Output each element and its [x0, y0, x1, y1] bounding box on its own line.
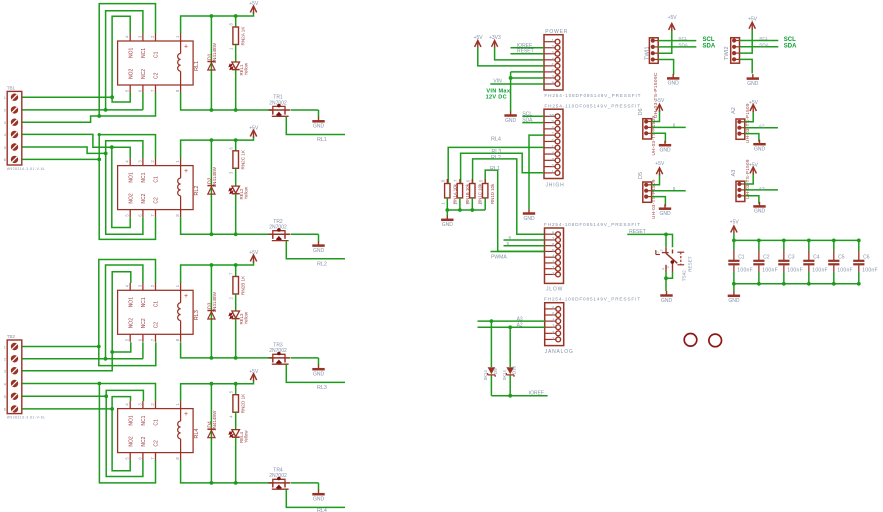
- wire SDA: [658, 46, 696, 48]
- svg-text:+5V: +5V: [249, 1, 259, 7]
- svg-text:NC1: NC1: [141, 415, 147, 425]
- svg-text:Yellow: Yellow: [243, 430, 248, 443]
- svg-text:+5V: +5V: [474, 35, 484, 41]
- wire: [510, 72, 512, 111]
- node: [97, 345, 101, 349]
- node: [664, 233, 668, 237]
- svg-text:TS42: TS42: [681, 270, 686, 281]
- svg-text:GND: GND: [659, 148, 671, 154]
- wire: [99, 384, 155, 483]
- svg-text:RL1: RL1: [490, 166, 500, 172]
- svg-text:1N4148W: 1N4148W: [212, 291, 217, 312]
- node: [210, 481, 214, 485]
- svg-text:NC2: NC2: [141, 69, 147, 79]
- svg-text:FH254-106DF085149V_PRESSFIT: FH254-106DF085149V_PRESSFIT: [544, 296, 641, 301]
- node: [508, 394, 512, 398]
- wire GND: [745, 196, 759, 204]
- wire: [235, 45, 237, 63]
- node: [458, 208, 462, 212]
- node NO1 junction: [110, 95, 114, 99]
- svg-text:GND: GND: [442, 222, 454, 228]
- svg-text:+5V: +5V: [749, 100, 759, 106]
- wire GND: [652, 133, 666, 143]
- supply +5V: [656, 168, 662, 174]
- svg-text:1N4148W: 1N4148W: [212, 42, 217, 63]
- svg-text:100nF: 100nF: [762, 267, 778, 273]
- node: [104, 394, 108, 398]
- svg-text:Yellow: Yellow: [243, 311, 248, 324]
- svg-text:A3: A3: [731, 170, 737, 177]
- wire: [318, 358, 320, 365]
- connector JLOW: [545, 228, 564, 283]
- wire RL2 net: [286, 241, 345, 259]
- node: [509, 76, 513, 80]
- wire: [181, 217, 273, 234]
- svg-text:NC2: NC2: [141, 436, 147, 446]
- svg-text:C2: C2: [154, 197, 160, 204]
- wire SCL: [740, 40, 779, 42]
- resistor RN1A: [446, 179, 448, 184]
- wire: [22, 109, 143, 111]
- diode D3: [210, 265, 212, 358]
- wire: [22, 158, 99, 160]
- svg-text:RL2: RL2: [317, 261, 327, 267]
- svg-text:+: +: [184, 293, 188, 300]
- relay RL3: [118, 290, 194, 334]
- svg-text:IOREF: IOREF: [529, 391, 544, 397]
- relay RL2 pins: [129, 158, 131, 166]
- svg-text:C1: C1: [154, 419, 160, 426]
- svg-text:W928316-3.81-V-6L: W928316-3.81-V-6L: [7, 416, 46, 420]
- LED REL1: [232, 62, 240, 69]
- svg-text:RN1C 10k: RN1C 10k: [477, 183, 482, 204]
- diode D10: [509, 327, 511, 367]
- svg-text:+: +: [184, 411, 188, 418]
- svg-text:C1: C1: [154, 51, 160, 58]
- capacitor C6: [858, 240, 860, 250]
- relay RL2: [118, 166, 194, 210]
- svg-text:+5V: +5V: [249, 125, 259, 131]
- wire: [495, 48, 544, 60]
- svg-text:2: 2: [660, 249, 664, 251]
- wire: [142, 342, 144, 359]
- svg-text:NO2: NO2: [128, 436, 134, 447]
- wire: [106, 141, 143, 158]
- resistor RN1B: [459, 179, 461, 184]
- diode D4: [210, 384, 212, 483]
- wire: [235, 294, 237, 311]
- svg-text:+5V: +5V: [748, 16, 758, 22]
- svg-text:POWER: POWER: [545, 29, 568, 35]
- svg-text:FH254-108DF085149V_PRESSFIT: FH254-108DF085149V_PRESSFIT: [544, 93, 641, 98]
- svg-text:C5: C5: [838, 254, 845, 260]
- wire: [235, 438, 237, 483]
- wire: [181, 460, 273, 483]
- svg-text:C1: C1: [154, 301, 160, 308]
- node: [104, 152, 108, 156]
- wire: [22, 134, 130, 158]
- wire: [181, 12, 254, 34]
- wire: [235, 319, 237, 358]
- wire: [22, 352, 112, 371]
- wire RL1 net: [286, 117, 345, 135]
- wire +5V rail: [734, 239, 859, 241]
- svg-text:A2: A2: [731, 107, 737, 114]
- wire: [291, 482, 319, 484]
- wire: [106, 390, 143, 401]
- wire +5V: [652, 110, 660, 121]
- wire: [235, 412, 237, 429]
- svg-text:SCL: SCL: [703, 37, 715, 43]
- mounting hole: [684, 334, 697, 347]
- node: [732, 282, 736, 286]
- svg-text:GND: GND: [661, 298, 673, 304]
- wire: [235, 194, 237, 234]
- relay RL4 pins: [129, 401, 131, 409]
- svg-text:RL2: RL2: [194, 186, 200, 196]
- node: [508, 325, 512, 329]
- wire GND: [529, 135, 544, 209]
- wire: [22, 395, 106, 397]
- supply +5V: [250, 6, 256, 12]
- wire: [291, 109, 319, 111]
- svg-text:TB2: TB2: [7, 334, 16, 339]
- wire: [112, 409, 130, 471]
- connector JANALOG: [545, 303, 564, 346]
- svg-text:+5V: +5V: [655, 98, 665, 104]
- svg-text:6: 6: [509, 235, 512, 240]
- svg-text:A3: A3: [517, 317, 523, 323]
- svg-text:C2: C2: [763, 254, 770, 260]
- wire: [235, 168, 237, 186]
- node: [98, 133, 101, 136]
- svg-text:NO1: NO1: [128, 172, 134, 183]
- wire: [106, 265, 143, 359]
- wire GND: [740, 59, 753, 73]
- svg-text:GND: GND: [659, 211, 671, 217]
- wire: [106, 11, 143, 110]
- wire GND: [658, 60, 673, 75]
- terminal block TB1: [7, 91, 22, 165]
- wire: [112, 93, 130, 103]
- supply +5V: [250, 130, 256, 136]
- svg-text:SDA: SDA: [678, 42, 688, 47]
- svg-text:NC1: NC1: [141, 297, 147, 307]
- svg-text:UH-03-TS-P1509: UH-03-TS-P1509: [745, 103, 750, 143]
- svg-text:NO1: NO1: [128, 48, 134, 59]
- svg-text:SCL: SCL: [784, 37, 796, 43]
- LED REL2: [232, 186, 240, 193]
- wire: [446, 210, 448, 216]
- wire +5V: [658, 30, 672, 53]
- svg-text:GND: GND: [668, 81, 680, 87]
- resistor RN2B 1K: [235, 265, 237, 277]
- svg-text:NC2: NC2: [141, 193, 147, 203]
- wire: [181, 93, 273, 111]
- relay RL1: [118, 41, 194, 85]
- wire: [22, 408, 112, 410]
- svg-text:3: 3: [666, 266, 670, 268]
- svg-text:SCL: SCL: [678, 36, 687, 41]
- wire RL4 net: [286, 489, 345, 507]
- wire: [22, 358, 143, 360]
- svg-text:JHIGH: JHIGH: [546, 182, 565, 188]
- wire GND: [511, 71, 544, 73]
- connector POWER: [544, 35, 563, 90]
- svg-text:GND: GND: [754, 209, 766, 215]
- svg-text:C3: C3: [788, 254, 795, 260]
- wire RESET: [511, 53, 545, 55]
- svg-text:D6: D6: [638, 108, 644, 115]
- wire: [665, 272, 667, 292]
- node: [97, 158, 101, 162]
- svg-text:Yellow: Yellow: [243, 186, 248, 199]
- svg-text:W928316-3.81-V-6L: W928316-3.81-V-6L: [7, 167, 46, 171]
- wire RL2 net: [473, 159, 545, 234]
- node: [234, 382, 238, 386]
- svg-text:+: +: [184, 168, 188, 175]
- node: [210, 14, 214, 18]
- resistor RN2A 1K: [235, 16, 237, 27]
- svg-text:A3: A3: [759, 186, 765, 191]
- svg-text:RN1D 10k: RN1D 10k: [490, 183, 495, 204]
- svg-text:C1: C1: [154, 176, 160, 183]
- svg-text:6: 6: [673, 122, 676, 127]
- node: [234, 138, 238, 142]
- svg-text:5: 5: [507, 241, 510, 246]
- wire: [112, 342, 131, 352]
- wire: [112, 397, 130, 409]
- node: [104, 357, 108, 361]
- svg-text:GND: GND: [523, 216, 535, 222]
- wire: [235, 70, 237, 110]
- wire +5V: [652, 174, 660, 185]
- svg-text:100nF: 100nF: [862, 267, 878, 273]
- node: [234, 263, 238, 267]
- svg-text:NO2: NO2: [128, 318, 134, 329]
- wire: [22, 384, 156, 402]
- svg-text:SDA: SDA: [703, 44, 716, 50]
- node: [490, 319, 494, 323]
- wire net 6: [652, 126, 686, 128]
- svg-text:NO2: NO2: [128, 69, 134, 80]
- LED REL3: [232, 311, 240, 318]
- svg-text:RN2B 1K: RN2B 1K: [240, 275, 245, 295]
- svg-text:C2: C2: [154, 440, 160, 447]
- wire: [99, 135, 155, 240]
- node: [210, 138, 214, 142]
- svg-text:RL3: RL3: [194, 310, 200, 320]
- svg-text:JANALOG: JANALOG: [545, 349, 574, 355]
- diode D9: [490, 321, 492, 367]
- wire: [22, 147, 106, 153]
- svg-text:GND: GND: [313, 497, 325, 503]
- svg-text:C6: C6: [863, 254, 870, 260]
- svg-text:GND: GND: [313, 372, 325, 378]
- wire SDA: [740, 46, 779, 48]
- supply +5V: [749, 22, 755, 28]
- ground: [672, 74, 674, 79]
- ground: [664, 204, 666, 209]
- wire: [112, 16, 130, 97]
- wire RL3 net: [461, 153, 544, 183]
- ground: [528, 209, 530, 214]
- svg-text:C2: C2: [154, 322, 160, 329]
- ground: [733, 291, 735, 296]
- node: [210, 108, 214, 112]
- svg-text:12V DC: 12V DC: [486, 94, 507, 100]
- diode D1: [210, 16, 212, 110]
- svg-text:FH254-110DF085149V_PRESSFIT: FH254-110DF085149V_PRESSFIT: [544, 104, 641, 109]
- svg-text:100nF: 100nF: [812, 267, 828, 273]
- supply +5V: [475, 41, 481, 47]
- wire +5V: [745, 111, 753, 122]
- node: [470, 208, 474, 212]
- wire: [666, 234, 673, 247]
- svg-text:RL4: RL4: [317, 508, 327, 512]
- ground: [752, 74, 754, 79]
- svg-text:RESET: RESET: [517, 49, 534, 55]
- wire SCL: [522, 115, 544, 117]
- resistor RN2C 1K: [235, 140, 237, 151]
- svg-text:NO2: NO2: [128, 193, 134, 204]
- svg-text:SDA: SDA: [522, 118, 533, 124]
- node: [110, 145, 114, 149]
- relay RL3 pins: [129, 283, 131, 291]
- ground: [664, 141, 666, 146]
- svg-text:D10: D10: [512, 365, 517, 374]
- wire RL4 net: [448, 147, 544, 183]
- ground: [318, 241, 320, 246]
- supply +5V: [750, 105, 756, 111]
- resistor RN1D: [484, 179, 486, 184]
- wire +5V: [745, 173, 753, 184]
- connector D5: [643, 182, 652, 202]
- wire: [318, 110, 320, 117]
- svg-text:D9: D9: [493, 368, 498, 374]
- wire RL3 net: [286, 364, 345, 382]
- wire: [22, 93, 156, 123]
- svg-text:+3V3: +3V3: [489, 35, 501, 41]
- svg-text:+: +: [184, 44, 188, 51]
- wire: [181, 342, 273, 358]
- relay RL4: [118, 409, 194, 453]
- wire IOREF: [511, 47, 545, 49]
- wire: [478, 48, 544, 66]
- wire: [447, 209, 485, 211]
- resistor RN1C: [471, 179, 473, 184]
- wire: [112, 272, 131, 352]
- wire: [99, 4, 155, 116]
- wire PWMA: [491, 250, 545, 252]
- supply +3V3: [492, 41, 498, 47]
- wire IOREF: [491, 395, 547, 397]
- svg-text:C4: C4: [813, 254, 820, 260]
- ground: [510, 111, 512, 116]
- svg-text:+5V: +5V: [668, 15, 678, 21]
- svg-text:RN2A 1K: RN2A 1K: [240, 26, 245, 46]
- node NC1 junction: [104, 108, 108, 112]
- node: [210, 232, 214, 236]
- wire: [666, 272, 673, 279]
- supply +5V: [669, 24, 675, 30]
- wire RL1 net: [485, 170, 544, 251]
- svg-text:VIN: VIN: [493, 78, 502, 84]
- svg-text:FH254-108DF085149V_PRESSFIT: FH254-108DF085149V_PRESSFIT: [544, 222, 641, 227]
- svg-text:SCL: SCL: [759, 36, 768, 41]
- wire: [181, 136, 254, 158]
- svg-text:GND: GND: [313, 124, 325, 130]
- svg-text:+5V: +5V: [655, 161, 665, 167]
- svg-text:JLOW: JLOW: [546, 287, 563, 293]
- wire A2 net: [745, 127, 778, 129]
- ground: [446, 215, 448, 220]
- connector TWI1: [649, 38, 658, 64]
- svg-text:RL4: RL4: [491, 137, 501, 143]
- svg-text:RL2: RL2: [491, 155, 501, 161]
- svg-text:TWI2: TWI2: [724, 46, 730, 60]
- svg-text:+5V: +5V: [730, 220, 740, 226]
- supply +5V: [731, 226, 737, 232]
- svg-text:RL3: RL3: [317, 385, 327, 391]
- svg-text:C1: C1: [738, 254, 745, 260]
- node: [234, 481, 238, 485]
- wire: [181, 380, 254, 401]
- svg-text:A2: A2: [759, 124, 765, 129]
- svg-text:5: 5: [673, 186, 676, 191]
- ground: [759, 202, 761, 207]
- svg-text:+5V: +5V: [749, 163, 759, 169]
- svg-text:+5V: +5V: [249, 250, 259, 256]
- supply +5V: [656, 104, 662, 110]
- wire GND: [652, 197, 666, 207]
- capacitor C4: [808, 240, 810, 250]
- svg-text:1N4148W: 1N4148W: [212, 410, 217, 431]
- svg-text:SDA: SDA: [784, 43, 797, 49]
- capacitor C1: [733, 240, 735, 250]
- LED REL4: [232, 430, 240, 437]
- wire net 6: [504, 239, 545, 241]
- svg-text:NC1: NC1: [141, 48, 147, 58]
- svg-text:TB1: TB1: [7, 85, 16, 90]
- svg-text:1N4148W: 1N4148W: [212, 166, 217, 187]
- wire RESET net: [627, 233, 666, 235]
- wire: [99, 260, 156, 366]
- wire: [106, 153, 143, 234]
- wire: [106, 396, 143, 476]
- wire: [112, 147, 130, 227]
- ground: [666, 291, 668, 296]
- svg-text:RN2D 1K: RN2D 1K: [240, 393, 245, 413]
- svg-text:RL4: RL4: [194, 429, 200, 439]
- svg-text:RL1: RL1: [194, 61, 200, 71]
- node: [110, 407, 114, 411]
- wire: [318, 234, 320, 241]
- svg-text:RESET: RESET: [629, 229, 646, 235]
- wire: [22, 96, 112, 98]
- wire net 5: [652, 190, 686, 192]
- node C1 junction: [97, 114, 101, 118]
- ground: [759, 140, 761, 145]
- svg-text:100nF: 100nF: [837, 267, 853, 273]
- node: [234, 356, 238, 360]
- wire A2: [478, 326, 545, 328]
- wire A3 net: [745, 189, 778, 191]
- svg-text:+5V: +5V: [249, 369, 259, 375]
- node: [234, 232, 238, 236]
- ground: [318, 365, 320, 370]
- wire SCL: [658, 40, 696, 42]
